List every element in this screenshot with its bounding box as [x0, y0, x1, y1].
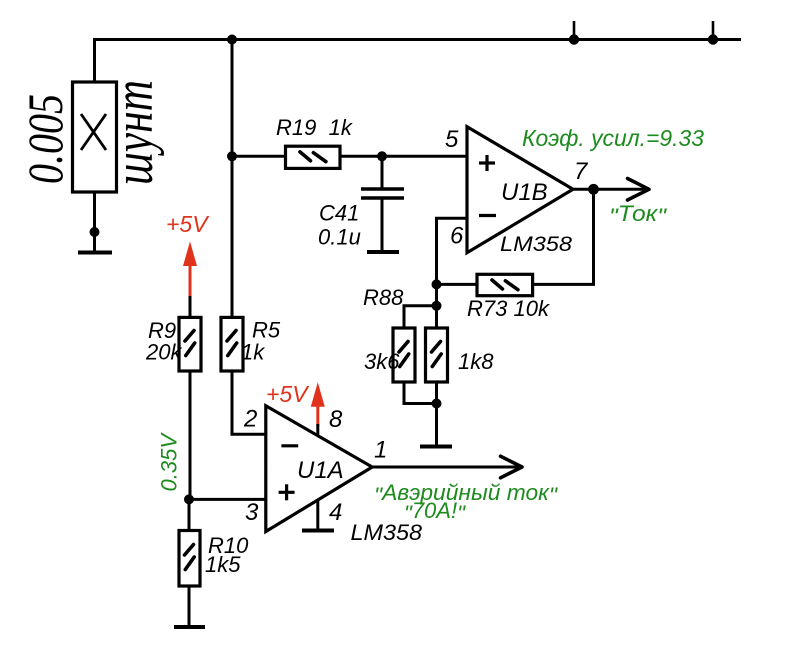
svg-text:0.005: 0.005 — [17, 94, 73, 184]
svg-text:3: 3 — [245, 499, 259, 526]
svg-text:шунт: шунт — [103, 80, 165, 185]
svg-text:1k5: 1k5 — [205, 552, 241, 577]
node dot U1B output — [588, 184, 599, 195]
ground C41 — [367, 250, 399, 254]
resistor R73 — [477, 274, 533, 295]
resistor shunt 0.005 — [73, 82, 117, 192]
ground R10 — [174, 625, 205, 629]
node dot shunt ground — [90, 227, 100, 237]
svg-text:+5V: +5V — [266, 381, 310, 407]
svg-text:0.35V: 0.35V — [157, 432, 182, 492]
svg-text:2: 2 — [243, 406, 257, 433]
node dot R19 input — [227, 151, 237, 161]
svg-text:R88: R88 — [363, 285, 404, 310]
resistor R19 — [286, 146, 341, 168]
op-amp U1B — [467, 127, 573, 253]
wire vertical bus x=232 — [231, 40, 234, 318]
ground R88 — [420, 445, 452, 449]
svg-text:U1B: U1B — [501, 179, 548, 206]
resistor 1k8 — [426, 328, 448, 382]
svg-text:R73 10k: R73 10k — [467, 296, 550, 321]
svg-text:3k6: 3k6 — [364, 349, 400, 374]
node dot top x=574 — [569, 34, 579, 44]
wire R73 left — [437, 283, 478, 286]
svg-text:"Авэрийный ток": "Авэрийный ток" — [374, 480, 558, 508]
resistor R9 — [179, 317, 201, 371]
svg-text:+5V: +5V — [166, 211, 210, 237]
wire R73 right up to U1B output — [533, 189, 594, 284]
svg-text:0.1u: 0.1u — [318, 225, 361, 250]
wire shunt bottom — [93, 192, 96, 252]
svg-text:R19 1k: R19 1k — [276, 115, 353, 140]
svg-text:1k: 1k — [241, 340, 265, 365]
node dot 3k6 top — [432, 301, 442, 311]
svg-text:U1A: U1A — [297, 457, 344, 484]
wire R19 left — [232, 155, 286, 158]
svg-text:5: 5 — [445, 126, 459, 153]
svg-text:7: 7 — [574, 158, 589, 185]
wire R5 bottom to U1A pin2 — [232, 371, 266, 434]
svg-text:20k: 20k — [145, 340, 182, 365]
resistor R10 — [179, 531, 200, 587]
power +5V arrow R9 — [183, 241, 197, 296]
svg-text:LM358: LM358 — [500, 232, 572, 256]
wire R10 bottom — [188, 586, 191, 627]
wire U1A pin4 — [316, 500, 319, 530]
resistor 3k6 — [393, 328, 415, 382]
svg-text:C41: C41 — [319, 201, 359, 226]
capacitor C41 top lead — [381, 156, 384, 188]
wire R88 bus vertical — [435, 284, 438, 328]
svg-text:6: 6 — [450, 222, 464, 249]
wire 1k8 bottom — [435, 382, 438, 446]
svg-text:4: 4 — [329, 499, 342, 526]
node dot R88 bottom — [432, 399, 442, 409]
node dot top x=232 — [227, 35, 237, 45]
resistor R5 — [221, 317, 243, 371]
capacitor C41 plates — [361, 187, 404, 190]
svg-text:8: 8 — [329, 406, 343, 433]
wire 3k6 bottom — [404, 382, 437, 404]
wire U1B pin6 — [437, 218, 468, 284]
wire R9 top black segment — [189, 296, 192, 317]
stub top node C — [712, 21, 715, 40]
svg-text:"Ток": "Ток" — [609, 201, 667, 229]
wire node to U1A pin3 — [190, 498, 266, 501]
svg-text:1k8: 1k8 — [458, 349, 494, 374]
node dot 0.35V — [184, 494, 194, 504]
svg-text:Коэф. усил.=9.33: Коэф. усил.=9.33 — [522, 125, 704, 151]
node dot R73 left — [432, 279, 442, 289]
node dot C41 top — [377, 151, 387, 161]
svg-text:1: 1 — [374, 437, 387, 464]
wire R9 bottom to node — [189, 371, 192, 499]
arrowhead U1A output — [501, 456, 523, 478]
power +5V arrow U1A — [311, 382, 325, 436]
wire R10 top — [188, 499, 191, 530]
wire top supply rail — [95, 40, 742, 83]
node dot top x=713 — [708, 34, 718, 44]
wire 3k6 top — [404, 306, 437, 328]
svg-text:"70А!": "70А!" — [404, 498, 466, 526]
ground shunt — [78, 251, 112, 255]
capacitor C41 bottom lead — [381, 198, 384, 251]
wire U1A output arrow line — [372, 466, 521, 469]
stub top node B — [573, 21, 576, 40]
wire U1B output arrow line — [573, 188, 648, 191]
arrowhead U1B output — [628, 179, 650, 201]
op-amp U1A — [266, 406, 372, 532]
svg-text:LM358: LM358 — [351, 520, 423, 545]
wire R19 right to U1B pin5 — [340, 155, 467, 158]
ground U1A pin4 — [302, 529, 334, 533]
